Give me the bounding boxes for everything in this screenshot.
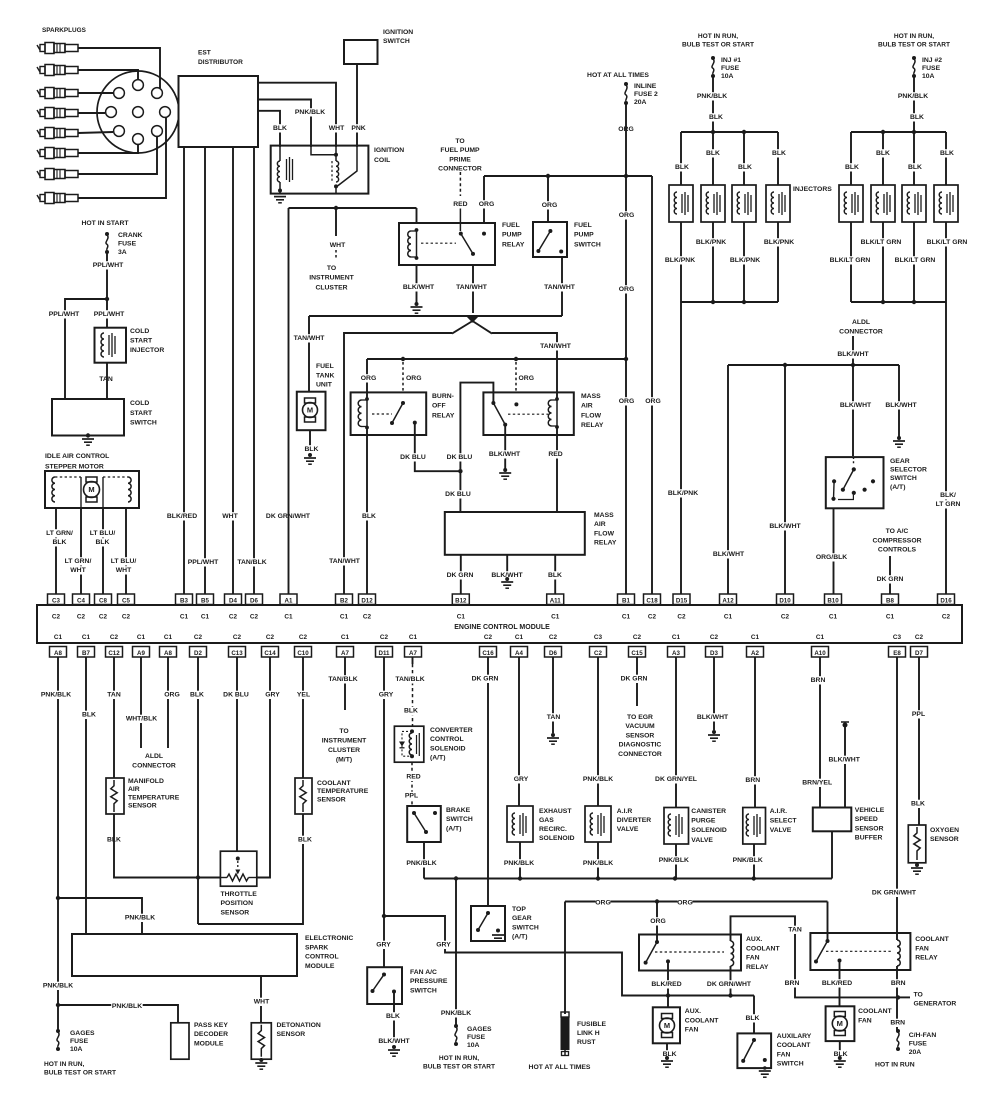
- ground D6: [547, 733, 559, 744]
- svg-text:C4: C4: [77, 598, 85, 605]
- wire RED dashed to relay: [459, 172, 461, 196]
- label DK GRN: [446, 571, 473, 579]
- svg-text:C16: C16: [482, 650, 494, 657]
- wire EGR to bus: [519, 842, 521, 879]
- label BLK/RED: [166, 512, 198, 520]
- svg-text:BRN/YEL: BRN/YEL: [802, 780, 832, 787]
- label BLK: [190, 691, 205, 699]
- svg-text:RUST: RUST: [577, 1039, 596, 1046]
- svg-text:FUSE: FUSE: [721, 65, 740, 72]
- svg-text:DK BLU: DK BLU: [223, 692, 249, 699]
- aux coolant fan motor: [653, 1007, 719, 1043]
- wire to aux coolant fan switch: [753, 996, 755, 1034]
- svg-text:BLK: BLK: [305, 446, 319, 453]
- ECM connector pin C2: [590, 634, 607, 657]
- spark plug 3: [37, 88, 78, 99]
- label ENGINE CONTROL MODULE: [455, 623, 548, 632]
- svg-text:BRN: BRN: [890, 1020, 905, 1027]
- ECM connector pin B12: [452, 594, 469, 621]
- svg-text:BLK: BLK: [548, 572, 562, 579]
- wire ORG to fuel pump switch: [547, 176, 549, 222]
- node: [624, 357, 628, 361]
- svg-text:CLUSTER: CLUSTER: [328, 747, 360, 754]
- svg-text:BLK/PNK: BLK/PNK: [730, 257, 760, 264]
- wire fuse to injector bus: [913, 76, 915, 132]
- svg-text:C2: C2: [380, 634, 389, 641]
- label HOT AT ALL TIMES: [583, 71, 653, 79]
- svg-text:C2: C2: [484, 634, 493, 641]
- wire BLK/WHT to ground: [506, 555, 508, 578]
- ECM connector pin A8: [50, 634, 67, 657]
- svg-text:RELAY: RELAY: [502, 241, 525, 248]
- svg-text:C1: C1: [724, 614, 733, 621]
- svg-text:C1: C1: [164, 634, 173, 641]
- svg-text:PPL/WHT: PPL/WHT: [94, 311, 125, 318]
- wire ORG inline fuse to ECM B1: [625, 103, 627, 594]
- svg-text:A9: A9: [137, 650, 145, 657]
- label LT BLU/BLK: [87, 529, 119, 537]
- svg-text:B10: B10: [827, 598, 839, 605]
- electronic spark control module: [72, 934, 353, 976]
- label BLK/LT GRN: [859, 238, 903, 246]
- label DK BLU: [444, 490, 471, 498]
- svg-text:COIL: COIL: [374, 157, 390, 164]
- svg-text:GEAR: GEAR: [512, 915, 532, 922]
- svg-text:BLK/PNK: BLK/PNK: [764, 239, 794, 246]
- label BLK: [911, 800, 926, 808]
- throttle position sensor: [220, 851, 258, 917]
- label ORG: [619, 211, 634, 219]
- svg-text:FLOW: FLOW: [581, 412, 602, 419]
- wire to cold start injector: [106, 299, 108, 328]
- svg-text:C14: C14: [264, 650, 276, 657]
- svg-text:FUSE: FUSE: [70, 1038, 89, 1045]
- spark plug 7: [37, 169, 78, 180]
- wire E8 DK GRN/WHT to coolant fan relay: [896, 657, 898, 940]
- svg-text:C3: C3: [52, 598, 60, 605]
- svg-text:EXHAUST: EXHAUST: [539, 808, 572, 815]
- label TAN/WHT: [456, 283, 488, 291]
- wire EST to ignition coil PNK/BLK: [258, 100, 311, 148]
- svg-text:TEMPERATURE: TEMPERATURE: [317, 788, 369, 795]
- VSS input connector stub: [841, 722, 849, 808]
- label BRN: [785, 979, 800, 987]
- svg-text:FUEL: FUEL: [574, 222, 592, 229]
- svg-text:BULB TEST OR START: BULB TEST OR START: [682, 42, 754, 49]
- label LT BLU/WHT: [108, 557, 140, 565]
- svg-text:10A: 10A: [922, 73, 935, 80]
- wire ignition switch PNK: [356, 64, 358, 147]
- svg-text:PNK/BLK: PNK/BLK: [583, 860, 613, 867]
- svg-text:BLK: BLK: [709, 114, 723, 121]
- svg-text:C8: C8: [99, 598, 107, 605]
- svg-text:SENSOR: SENSOR: [317, 796, 346, 803]
- svg-text:ORG/BLK: ORG/BLK: [816, 554, 847, 561]
- label BLK: [876, 149, 891, 157]
- svg-text:GAGES: GAGES: [70, 1030, 95, 1037]
- wire bus to injector: [712, 132, 714, 185]
- wire coolant relay coil bottom BRN: [896, 966, 898, 1031]
- svg-text:BLK: BLK: [82, 712, 96, 719]
- inline fuse 2 20A: [624, 82, 660, 107]
- svg-text:BLK/PNK: BLK/PNK: [696, 239, 726, 246]
- ground below MAF sensor: [501, 577, 513, 588]
- svg-text:M: M: [88, 485, 94, 494]
- svg-text:SOLENOID: SOLENOID: [430, 745, 466, 752]
- svg-text:DISTRIBUTOR: DISTRIBUTOR: [198, 59, 243, 66]
- svg-text:FLOW: FLOW: [594, 530, 615, 537]
- label HOT IN START: [79, 219, 132, 227]
- label PPL/WHT: [92, 261, 124, 269]
- wire ORG dashed to MAF relay: [515, 362, 517, 392]
- label LT GRN/WHT: [62, 557, 93, 565]
- svg-text:C18: C18: [646, 598, 658, 605]
- wire A3 DK GRN/YEL to canister purge: [675, 657, 677, 808]
- svg-text:A1: A1: [285, 598, 293, 605]
- svg-text:BLK/WHT: BLK/WHT: [840, 402, 872, 409]
- svg-text:BRAKE: BRAKE: [446, 807, 471, 814]
- svg-text:DIAGNOSTIC: DIAGNOSTIC: [619, 742, 662, 749]
- svg-text:TAN: TAN: [99, 376, 113, 383]
- svg-text:TOP: TOP: [512, 906, 526, 913]
- wire A8 ORG to ALDL: [167, 657, 169, 748]
- svg-text:IDLE AIR CONTROL: IDLE AIR CONTROL: [45, 453, 109, 460]
- svg-text:A3: A3: [672, 650, 680, 657]
- wire ALDL stub: [852, 336, 854, 365]
- node: [711, 130, 715, 134]
- label BLK/WHT: [489, 450, 521, 458]
- svg-text:C1: C1: [816, 634, 825, 641]
- wire relay BLK/WHT to ground: [416, 265, 418, 303]
- svg-text:BLK: BLK: [908, 164, 922, 171]
- node: [624, 174, 628, 178]
- svg-text:STEPPER MOTOR: STEPPER MOTOR: [45, 464, 104, 471]
- svg-text:BULB TEST OR START: BULB TEST OR START: [423, 1064, 495, 1071]
- svg-text:GAGES: GAGES: [467, 1026, 492, 1033]
- ECM connector pin C10: [295, 634, 312, 657]
- label ORG: [361, 374, 376, 382]
- ground aux coolant fan: [661, 1056, 673, 1067]
- ECM connector pin D6: [246, 594, 263, 621]
- svg-text:PNK/BLK: PNK/BLK: [504, 860, 534, 867]
- svg-text:BLK/PNK: BLK/PNK: [668, 490, 698, 497]
- ECM connector pin A1: [280, 594, 297, 621]
- svg-text:C2: C2: [781, 614, 790, 621]
- svg-text:VALVE: VALVE: [617, 826, 639, 833]
- svg-text:C1: C1: [551, 614, 560, 621]
- label BLK/PNK: [695, 238, 727, 246]
- svg-text:C15: C15: [631, 650, 643, 657]
- svg-text:SWITCH: SWITCH: [383, 38, 410, 45]
- svg-text:INSTRUMENT: INSTRUMENT: [322, 738, 367, 745]
- label BLK/LT GRN: [828, 256, 872, 264]
- svg-text:A7: A7: [341, 650, 349, 657]
- ECM connector pin C18: [644, 594, 661, 621]
- label BLK/PNK: [763, 238, 795, 246]
- svg-text:BLK/RED: BLK/RED: [651, 981, 681, 988]
- label BLK/PNK: [664, 256, 696, 264]
- svg-text:B1: B1: [622, 598, 630, 605]
- svg-text:10A: 10A: [721, 73, 734, 80]
- label PNK/BLK: [40, 691, 71, 699]
- svg-text:PNK/BLK: PNK/BLK: [43, 983, 73, 990]
- svg-text:START: START: [130, 338, 153, 345]
- ignition coil: [271, 146, 409, 194]
- svg-text:RELAY: RELAY: [581, 422, 604, 429]
- svg-text:ORG: ORG: [645, 398, 660, 405]
- svg-text:C2: C2: [110, 634, 119, 641]
- svg-text:WHT: WHT: [329, 125, 345, 132]
- label BLK: [940, 149, 955, 157]
- svg-text:TAN: TAN: [547, 714, 561, 721]
- svg-text:PNK/BLK: PNK/BLK: [406, 860, 436, 867]
- svg-text:YEL: YEL: [297, 692, 310, 699]
- label BLK: [386, 1012, 401, 1020]
- label RED: [453, 200, 468, 208]
- wire DK BLU to mass air flow sensor: [459, 471, 461, 512]
- node: [56, 1003, 60, 1007]
- svg-text:C2: C2: [266, 634, 275, 641]
- wire DK BLU riser to MAF switch: [460, 383, 493, 472]
- svg-text:A11: A11: [550, 598, 562, 605]
- label BLK: [738, 163, 753, 171]
- label BLK/WHT: [840, 401, 872, 409]
- wire injector to return bus: [743, 222, 745, 302]
- label INJECTORS: [792, 185, 832, 193]
- injector: [766, 185, 790, 222]
- ECM connector pin D12: [359, 594, 376, 621]
- svg-text:TAN/BLK: TAN/BLK: [328, 676, 357, 683]
- svg-text:E8: E8: [893, 650, 901, 657]
- spark plug 2: [37, 65, 78, 76]
- label WHT: [329, 124, 344, 132]
- pass key decoder module: [171, 1021, 229, 1059]
- svg-text:B5: B5: [201, 598, 209, 605]
- svg-text:MASS: MASS: [594, 512, 614, 519]
- svg-text:D16: D16: [940, 598, 952, 605]
- svg-text:C3: C3: [594, 634, 603, 641]
- svg-text:SENSOR: SENSOR: [277, 1031, 306, 1038]
- svg-text:B3: B3: [180, 598, 188, 605]
- svg-text:TO: TO: [914, 992, 923, 999]
- svg-text:BLK/WHT: BLK/WHT: [713, 551, 745, 558]
- svg-text:LT BLU/: LT BLU/: [90, 530, 116, 537]
- label DK BLU: [446, 453, 473, 461]
- svg-text:TO A/C: TO A/C: [886, 528, 909, 535]
- svg-text:BRN: BRN: [811, 677, 826, 684]
- svg-text:C1: C1: [180, 614, 189, 621]
- label TAN: [788, 926, 803, 934]
- ECM connector pin C12: [106, 634, 123, 657]
- wire C13 DK BLU to TPS: [236, 657, 238, 851]
- svg-text:ORG: ORG: [619, 212, 634, 219]
- svg-text:VALVE: VALVE: [770, 827, 792, 834]
- ECM connector pin D2: [190, 634, 207, 657]
- svg-text:TO EGR: TO EGR: [627, 714, 653, 721]
- wire A9 WHT/BLK to ALDL: [140, 657, 142, 748]
- label WHT: [254, 998, 269, 1006]
- svg-text:FAN A/C: FAN A/C: [410, 969, 437, 976]
- svg-text:LT BLU/: LT BLU/: [111, 558, 137, 565]
- fuel pump relay: [399, 221, 525, 265]
- svg-text:PNK/BLK: PNK/BLK: [112, 1003, 142, 1010]
- wire ESC WHT to detonation sensor: [260, 976, 262, 1023]
- svg-text:HOT IN RUN,: HOT IN RUN,: [44, 1061, 84, 1068]
- wire bus to injector: [913, 132, 915, 185]
- engine control module band: [37, 605, 962, 643]
- svg-text:OFF: OFF: [432, 403, 446, 410]
- wire injector to return bus: [680, 222, 682, 302]
- svg-text:D3: D3: [710, 650, 718, 657]
- svg-text:C2: C2: [710, 634, 719, 641]
- ignition switch: [344, 28, 418, 64]
- converter control solenoid: [394, 726, 472, 762]
- wire EST to ignition coil BLK: [258, 111, 280, 147]
- label BLK: [772, 149, 787, 157]
- svg-text:C2: C2: [52, 614, 61, 621]
- svg-text:BLK: BLK: [53, 539, 67, 546]
- svg-text:PPL: PPL: [912, 711, 925, 718]
- svg-text:SWITCH: SWITCH: [512, 924, 539, 931]
- svg-text:SWITCH: SWITCH: [446, 816, 473, 823]
- label PNK/BLK: [503, 859, 535, 867]
- svg-text:WHT: WHT: [222, 513, 238, 520]
- label BLK: [82, 711, 97, 719]
- node: [711, 300, 715, 304]
- spark plug wires to distributor cap: [78, 48, 166, 198]
- svg-text:A.I.R.: A.I.R.: [770, 808, 787, 815]
- svg-text:C2: C2: [250, 614, 259, 621]
- svg-text:TANK: TANK: [316, 372, 334, 379]
- svg-text:FAN: FAN: [685, 1027, 699, 1034]
- svg-text:DK BLU: DK BLU: [400, 454, 426, 461]
- wire EST to ECM D6 TAN/BLK: [253, 147, 255, 594]
- svg-text:WHT: WHT: [70, 567, 86, 574]
- svg-text:IGNITION: IGNITION: [374, 147, 404, 154]
- wire MAT sensor to sensor ground bus: [114, 814, 220, 878]
- wire ORG to relay: [483, 176, 485, 223]
- svg-text:DK GRN/YEL: DK GRN/YEL: [655, 776, 697, 783]
- svg-text:MASS: MASS: [581, 393, 601, 400]
- ECM connector pin B3: [176, 594, 193, 621]
- label ORG/BLK: [816, 553, 848, 561]
- svg-text:BRN: BRN: [891, 980, 906, 987]
- ECM connector pin A10: [812, 634, 829, 657]
- svg-text:PNK/BLK: PNK/BLK: [441, 1010, 471, 1017]
- label DK GRN: [876, 575, 903, 583]
- svg-text:PPL/WHT: PPL/WHT: [93, 262, 124, 269]
- label ORG: [646, 397, 661, 405]
- svg-text:C1: C1: [457, 614, 466, 621]
- wire sensor ground link: [198, 814, 303, 924]
- wire air select to bus: [753, 844, 755, 879]
- label ORG: [405, 374, 420, 382]
- svg-text:C1: C1: [340, 614, 349, 621]
- svg-text:ORG: ORG: [406, 375, 421, 382]
- ECM connector pin D6: [545, 634, 562, 657]
- svg-text:PUMP: PUMP: [574, 232, 594, 239]
- label DK BLU: [222, 691, 249, 699]
- label PPL: [911, 710, 926, 718]
- node: [742, 300, 746, 304]
- svg-text:BLK: BLK: [845, 164, 859, 171]
- wire to generator: [898, 996, 910, 998]
- label PNK/BLK: [294, 108, 326, 116]
- air select valve: [743, 807, 798, 844]
- svg-text:CANISTER: CANISTER: [691, 808, 726, 815]
- wire A4 GRY to EGR solenoid: [518, 657, 520, 806]
- ECM connector pin B1: [618, 594, 635, 621]
- svg-text:SELECT: SELECT: [770, 817, 798, 824]
- vehicle speed sensor buffer: [813, 806, 886, 842]
- svg-text:C2: C2: [233, 634, 242, 641]
- wire C16 DK GRN to top gear switch: [487, 657, 489, 906]
- wire injector to return bus: [882, 222, 884, 302]
- ECM connector pin D7: [911, 634, 928, 657]
- svg-text:HOT IN RUN,: HOT IN RUN,: [894, 33, 934, 40]
- ECM connector pin B10: [825, 594, 842, 621]
- svg-text:DK GRN: DK GRN: [472, 676, 499, 683]
- svg-text:BLK/LT GRN: BLK/LT GRN: [895, 257, 936, 264]
- svg-text:RELAY: RELAY: [594, 540, 617, 547]
- svg-text:GRY: GRY: [379, 692, 394, 699]
- svg-text:BLK/RED: BLK/RED: [167, 513, 197, 520]
- svg-text:C10: C10: [297, 650, 309, 657]
- svg-text:GRY: GRY: [265, 692, 280, 699]
- wire aux relay coil bottom DK GRN/WHT: [730, 966, 732, 996]
- svg-text:BLK: BLK: [273, 125, 287, 132]
- injector: [902, 185, 926, 222]
- svg-text:TO: TO: [339, 728, 348, 735]
- svg-text:ORG: ORG: [164, 692, 179, 699]
- ECM connector pin B5: [197, 594, 214, 621]
- label HOT IN RUN BULB TEST OR START bank 1: [695, 32, 742, 40]
- wire ORG distribution: [484, 175, 652, 177]
- svg-text:GRY: GRY: [436, 942, 451, 949]
- wire coil output bus: [289, 207, 417, 209]
- wire ORG to ECM C18: [651, 176, 653, 594]
- wire canister purge to bus: [675, 844, 677, 879]
- node: [596, 876, 600, 880]
- svg-text:DK GRN/WHT: DK GRN/WHT: [872, 890, 917, 897]
- svg-text:DETONATION: DETONATION: [277, 1022, 321, 1029]
- wire IAC to C3: [55, 508, 57, 594]
- wire D3 BLK/WHT stub to ground: [713, 657, 715, 730]
- label BLK/PNK: [729, 256, 761, 264]
- svg-text:BLK/WHT: BLK/WHT: [885, 402, 917, 409]
- svg-text:FUSE 2: FUSE 2: [634, 91, 658, 98]
- svg-text:AUXILARY: AUXILARY: [777, 1033, 812, 1040]
- fuel pump switch: [533, 221, 601, 257]
- svg-text:RED: RED: [548, 451, 562, 458]
- wire branch to cold start switch: [65, 299, 107, 399]
- svg-text:BLK: BLK: [386, 1013, 400, 1020]
- svg-text:TAN/BLK: TAN/BLK: [237, 559, 266, 566]
- svg-text:PNK: PNK: [351, 125, 365, 132]
- label PNK/BLK: [440, 1009, 472, 1017]
- wire ORG fan bus: [565, 901, 828, 903]
- oxygen sensor: [908, 825, 959, 863]
- svg-text:DECODER: DECODER: [194, 1031, 228, 1038]
- wire aux fan to ground: [666, 1043, 668, 1056]
- node: [518, 876, 522, 880]
- wire C10 YEL to coolant temp sensor: [302, 657, 304, 778]
- svg-text:SELECTOR: SELECTOR: [890, 467, 927, 474]
- svg-text:CONVERTER: CONVERTER: [430, 727, 473, 734]
- svg-text:PNK/BLK: PNK/BLK: [898, 93, 928, 100]
- svg-text:TAN/WHT: TAN/WHT: [329, 558, 361, 565]
- svg-text:HOT AT ALL TIMES: HOT AT ALL TIMES: [529, 1064, 591, 1071]
